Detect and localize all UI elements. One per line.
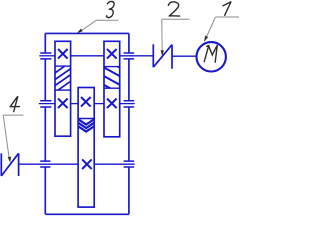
wire motor shaft segment xyxy=(172,55,196,57)
node row3 axis left segment from coupling xyxy=(19,163,79,165)
chevron v3 xyxy=(78,126,94,131)
label 1 leader xyxy=(205,17,216,41)
gear block column 1 divider under hatch cell xyxy=(55,89,71,91)
wire bottom housing line xyxy=(45,213,129,215)
arrowhead label 3 xyxy=(77,29,83,34)
bearing right shaft row2 xyxy=(124,101,135,107)
arrowhead label 4 xyxy=(8,157,11,163)
gear block column 1 outline xyxy=(55,41,71,136)
node row2 axis segment col1-col2 xyxy=(71,103,78,105)
coupling input (top right, label 2) bar1 xyxy=(152,44,154,67)
label 2 underline xyxy=(162,18,190,20)
gear block column 1 divider under X cell xyxy=(55,65,71,67)
fixed joint X column1 row1 xyxy=(58,49,68,59)
node row3 axis right segment xyxy=(94,163,135,165)
label 3 leader xyxy=(79,20,97,32)
coupling input diagonal xyxy=(153,45,172,67)
shaft I (left vertical shaft) xyxy=(44,33,46,214)
coupling input bar2 xyxy=(171,45,173,69)
fixed joint X column3 row2 xyxy=(107,99,117,109)
gear block column 3 outline xyxy=(104,41,120,137)
node row2 axis left segment xyxy=(39,103,55,105)
bearing left shaft row2 xyxy=(40,101,51,107)
gear block column 2 divider under X cell xyxy=(78,118,94,120)
chevron v2 xyxy=(78,123,94,128)
label digit 4 xyxy=(10,97,19,112)
bearing left shaft row1 xyxy=(40,53,51,59)
wire top housing line xyxy=(45,32,129,34)
arrowhead label 1 xyxy=(204,36,208,42)
motor M1 circle xyxy=(197,42,226,71)
arrowhead label 2 xyxy=(161,50,164,56)
label 4 underline xyxy=(3,114,23,116)
chevron v1 xyxy=(78,119,94,124)
node row1 axis right segment to coupling xyxy=(120,55,154,57)
node row2 axis segment col2-col3 xyxy=(94,103,104,105)
label 3 underline xyxy=(96,19,118,21)
shaft II (right vertical shaft) xyxy=(128,33,130,214)
coupling output bar2 xyxy=(18,153,20,176)
gear block column 2 (middle sliding block) outline xyxy=(78,88,94,208)
fixed joint X column3 row1 xyxy=(107,49,117,59)
coupling output (left, label 4) bar1 xyxy=(0,153,2,176)
label 1 underline xyxy=(216,16,240,18)
bearing right shaft row1 xyxy=(124,53,135,59)
bearing right shaft row3 xyxy=(124,161,135,167)
fixed joint X column1 row2 xyxy=(58,99,68,109)
motor letter M xyxy=(204,45,217,62)
fixed joint X column2 row3 xyxy=(82,159,92,169)
bearing left shaft row3 xyxy=(40,161,50,167)
label digit 3 xyxy=(107,1,115,17)
coupling output diagonal xyxy=(1,153,18,176)
hatch cell column 3 xyxy=(103,58,121,94)
node row2 axis right segment xyxy=(120,103,135,105)
label digit 2 xyxy=(168,2,179,16)
node row1 axis middle segment xyxy=(71,55,104,57)
label digit 1 xyxy=(223,2,231,15)
fixed joint X column2 row2 xyxy=(81,97,91,107)
label 4 leader xyxy=(3,115,9,160)
gear block column 3 divider under X cell xyxy=(104,66,120,68)
gear block column 3 divider under hatch cell xyxy=(104,87,120,89)
hatch cell column 1 xyxy=(54,61,72,93)
label 2 leader xyxy=(161,19,163,54)
node row1 axis left segment xyxy=(39,55,55,57)
